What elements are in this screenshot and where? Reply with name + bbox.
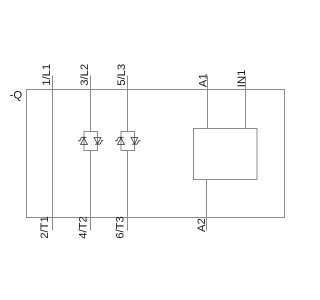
svg-text:4/T2: 4/T2 xyxy=(77,216,89,239)
svg-text:3/L2: 3/L2 xyxy=(79,64,91,86)
svg-text:A1: A1 xyxy=(198,73,210,87)
svg-text:6/T3: 6/T3 xyxy=(114,216,126,239)
svg-text:A2: A2 xyxy=(196,218,208,232)
svg-text:1/L1: 1/L1 xyxy=(41,64,53,86)
svg-text:5/L3: 5/L3 xyxy=(116,64,128,86)
svg-text:IN1: IN1 xyxy=(236,70,248,88)
svg-text:2/T1: 2/T1 xyxy=(39,216,51,239)
svg-text:-Q: -Q xyxy=(10,90,23,102)
